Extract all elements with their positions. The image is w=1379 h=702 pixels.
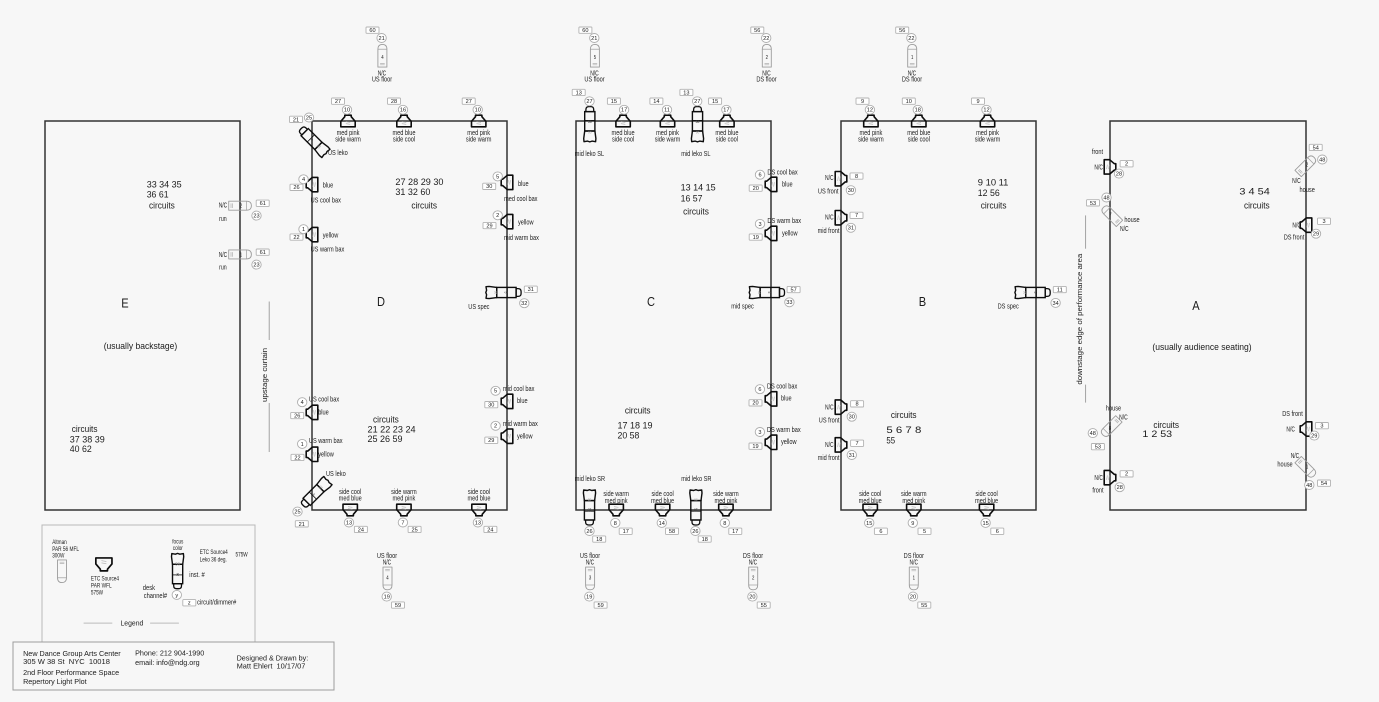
svg-text:6: 6 (758, 173, 761, 179)
svg-text:12 56: 12 56 (978, 187, 1000, 198)
svg-text:31: 31 (848, 226, 854, 232)
svg-text:DS cool bax: DS cool bax (767, 167, 798, 176)
svg-text:21: 21 (293, 117, 299, 123)
svg-text:17: 17 (723, 108, 729, 114)
svg-text:US cool bax: US cool bax (309, 394, 340, 403)
svg-text:14: 14 (653, 99, 659, 105)
svg-text:y: y (175, 593, 178, 599)
svg-text:color: color (173, 546, 183, 552)
svg-text:3: 3 (1320, 424, 1323, 430)
floor tube fixture #1 ch22 cir56 N/C DS floor above B (896, 27, 923, 84)
svg-text:30: 30 (848, 188, 854, 194)
US spec leko fixture ch32 cir31 on D right edge (468, 286, 537, 311)
svg-text:B: B (919, 294, 926, 309)
svg-text:1: 1 (302, 227, 305, 233)
text C circuits upper (681, 182, 716, 217)
svg-text:circuit/dimmer#: circuit/dimmer# (197, 598, 237, 607)
svg-text:2: 2 (1306, 162, 1308, 168)
svg-text:56: 56 (754, 28, 760, 34)
svg-text:DS floor: DS floor (902, 75, 923, 84)
svg-text:med pink: med pink (715, 496, 738, 505)
svg-text:mid spec: mid spec (731, 301, 754, 310)
svg-text:mid front: mid front (818, 453, 840, 462)
svg-text:yellow: yellow (318, 450, 334, 459)
svg-text:circuits: circuits (981, 200, 1007, 211)
svg-text:US cool bax: US cool bax (311, 195, 342, 204)
PAR fixture ch5 cir30 mid cool bax blue D right lower (485, 384, 535, 409)
svg-text:20: 20 (910, 595, 916, 601)
title block phone email text (135, 649, 204, 667)
svg-text:US front: US front (818, 187, 839, 196)
svg-text:7: 7 (401, 520, 404, 526)
svg-text:N/C: N/C (825, 402, 834, 411)
svg-text:channel#: channel# (144, 591, 168, 600)
svg-text:28: 28 (1117, 485, 1123, 491)
svg-text:N/C: N/C (825, 173, 834, 182)
svg-text:27: 27 (586, 99, 592, 105)
house tube fixture #1 ch48 cir54 A right lower angled (1277, 451, 1330, 489)
svg-text:300W: 300W (52, 554, 64, 560)
svg-text:19: 19 (752, 444, 758, 450)
svg-text:575W: 575W (236, 553, 248, 559)
svg-text:20: 20 (753, 186, 759, 192)
svg-text:side warm: side warm (335, 134, 361, 143)
svg-text:18: 18 (694, 508, 698, 513)
svg-text:13: 13 (576, 90, 582, 96)
svg-text:US warm bax: US warm bax (309, 436, 343, 445)
svg-text:27: 27 (466, 99, 472, 105)
svg-text:C: C (647, 294, 655, 309)
svg-text:D: D (377, 294, 385, 309)
svg-text:36: 36 (696, 119, 700, 124)
svg-text:9 10 11: 9 10 11 (978, 176, 1009, 187)
svg-text:ETC Source4: ETC Source4 (200, 550, 229, 556)
PAR fixture ch9 cir5 side warm med pink B bottom 2 (901, 489, 931, 535)
svg-text:med blue: med blue (859, 496, 882, 505)
svg-text:yellow: yellow (517, 431, 533, 440)
svg-text:54: 54 (1321, 481, 1327, 487)
svg-text:29: 29 (1311, 434, 1317, 440)
svg-text:16: 16 (400, 108, 406, 114)
svg-text:26: 26 (293, 185, 299, 191)
svg-text:57: 57 (790, 287, 796, 293)
svg-text:23: 23 (253, 263, 259, 269)
svg-text:34: 34 (1052, 301, 1058, 307)
svg-text:DS cool bax: DS cool bax (767, 381, 798, 390)
svg-text:60: 60 (582, 28, 588, 34)
mid leko SL fixture ch27 cir13 C top 1 (572, 89, 604, 158)
svg-text:(usually backstage): (usually backstage) (104, 341, 178, 351)
legend ETC Source4 PAR symbol (96, 558, 112, 571)
svg-text:2: 2 (494, 424, 497, 430)
svg-text:circuits: circuits (411, 200, 437, 211)
svg-text:z: z (188, 601, 191, 607)
svg-text:55: 55 (886, 434, 895, 445)
svg-text:36: 36 (493, 291, 498, 295)
svg-text:N/C: N/C (1094, 473, 1103, 482)
svg-text:N/C: N/C (1292, 221, 1301, 230)
svg-text:3 4 54: 3 4 54 (1239, 185, 1269, 196)
svg-text:22: 22 (763, 36, 769, 42)
svg-text:18: 18 (587, 508, 591, 513)
svg-text:17: 17 (732, 529, 738, 535)
svg-text:side cool: side cool (716, 134, 739, 143)
svg-text:22: 22 (908, 36, 914, 42)
svg-text:inst. #: inst. # (189, 570, 205, 579)
svg-text:26: 26 (692, 529, 698, 535)
US leko corner fixture ch25 cir21 bottom-left of D (293, 469, 346, 528)
svg-text:2: 2 (1125, 162, 1128, 168)
svg-text:8: 8 (856, 402, 859, 408)
PAR fixture ch30 cir8 N/C US front B left upper (818, 172, 863, 196)
svg-text:E: E (121, 296, 129, 311)
mid leko SL fixture ch27 cir13 C top 4 (680, 89, 711, 158)
svg-text:5: 5 (923, 529, 926, 535)
svg-text:PAR WFL: PAR WFL (91, 584, 112, 590)
svg-text:circuits: circuits (1244, 200, 1270, 211)
svg-text:29: 29 (488, 438, 494, 444)
svg-text:15: 15 (866, 521, 872, 527)
svg-text:side cool: side cool (908, 134, 931, 143)
stage area C rectangle (576, 121, 771, 510)
PAR fixture ch3 cir19 DS warm bax yellow C right upper2 (749, 216, 801, 241)
svg-text:4: 4 (301, 400, 304, 406)
svg-text:med pink: med pink (393, 494, 416, 503)
stage area B rectangle (841, 121, 1036, 510)
PAR fixture ch1 cir22 US warm bax yellow D left lower2 (291, 436, 343, 462)
svg-text:DS floor: DS floor (756, 75, 777, 84)
svg-text:med blue: med blue (339, 494, 362, 503)
PAR fixture ch3 cir19 DS warm bax yellow C right lower2 (749, 425, 801, 450)
svg-text:Legend: Legend (121, 619, 144, 628)
legend title rule right (150, 622, 179, 624)
svg-text:40 62: 40 62 (70, 443, 92, 454)
svg-text:15: 15 (982, 521, 988, 527)
floor tube fixture #4 ch19 cir59 US floor N/C below D (377, 551, 405, 609)
mid leko SR fixture ch26 cir18 C bottom 1 (575, 474, 606, 543)
svg-text:36: 36 (757, 291, 762, 295)
svg-text:N/C: N/C (910, 557, 919, 566)
svg-text:2: 2 (752, 575, 754, 581)
PAR fixture ch4 cir26 blue US cool bax D left upper (290, 175, 341, 205)
svg-text:24: 24 (487, 527, 493, 533)
PAR fixture ch13 cir24 side cool med blue D bottom 1 (339, 487, 368, 533)
svg-text:22: 22 (294, 455, 300, 461)
svg-text:blue: blue (517, 396, 528, 405)
svg-text:6: 6 (879, 529, 882, 535)
svg-text:13: 13 (683, 90, 689, 96)
text E circuits lower (70, 423, 105, 454)
svg-text:29: 29 (486, 224, 492, 230)
svg-text:DS front: DS front (1282, 409, 1303, 418)
svg-text:blue: blue (323, 180, 334, 189)
svg-text:4: 4 (381, 55, 383, 61)
svg-text:blue: blue (781, 394, 792, 403)
PAR fixture ch6 cir20 DS cool bax blue C right upper (749, 167, 798, 192)
svg-text:front: front (1092, 147, 1103, 156)
svg-text:DS spec: DS spec (998, 301, 1020, 310)
svg-text:21: 21 (378, 36, 384, 42)
mid spec leko fixture ch33 cir57 on C right edge (731, 286, 800, 310)
svg-text:28: 28 (391, 99, 397, 105)
PAR fixture ch29 cir3 N/C DS front A right upper (1284, 218, 1331, 242)
svg-text:27: 27 (694, 99, 700, 105)
legend text focus color (172, 539, 183, 552)
svg-text:N/C: N/C (749, 557, 758, 566)
run tube fixture #1 ch23 cir61 on E right edge lower (219, 249, 270, 272)
svg-text:26: 26 (294, 413, 300, 419)
house tube fixture #2 ch48 cir54 A right upper angled (1292, 144, 1327, 194)
svg-text:13: 13 (475, 520, 481, 526)
svg-text:US leko: US leko (326, 469, 346, 478)
svg-text:US floor: US floor (372, 75, 393, 84)
svg-text:575W: 575W (91, 590, 103, 596)
svg-text:32: 32 (521, 301, 527, 307)
svg-text:focus: focus (172, 539, 183, 545)
svg-text:8: 8 (723, 521, 726, 527)
svg-text:house: house (1124, 215, 1139, 224)
text B circuits upper (978, 176, 1009, 210)
PAR fixture ch17 cir15 med blue side cool C top 5 (709, 98, 739, 143)
svg-text:9: 9 (911, 521, 914, 527)
svg-text:36 61: 36 61 (147, 189, 169, 200)
PAR fixture ch10 cir27 med pink side warm D top 3 (462, 98, 491, 143)
svg-text:Matt Ehlert 10/17/07: Matt Ehlert 10/17/07 (237, 661, 306, 670)
PAR fixture ch12 cir9 med pink side warm B top 1 (856, 98, 884, 143)
stage area D rectangle (312, 121, 507, 510)
PAR fixture ch28 cir2 front N/C A left upper (1092, 147, 1133, 178)
svg-text:DS front: DS front (1284, 233, 1305, 242)
svg-text:mid front: mid front (818, 226, 840, 235)
svg-text:18: 18 (915, 108, 921, 114)
svg-text:6: 6 (758, 387, 761, 393)
svg-text:48: 48 (1103, 195, 1109, 201)
PAR fixture ch15 cir6 side cool med blue B bottom 1 (859, 489, 888, 535)
svg-text:9: 9 (861, 99, 864, 105)
svg-text:downstage edge of performance: downstage edge of performance area (1075, 253, 1084, 385)
svg-text:run: run (219, 214, 227, 223)
stage area A rectangle (1110, 121, 1306, 510)
svg-text:side warm: side warm (466, 134, 492, 143)
svg-text:19: 19 (586, 595, 592, 601)
svg-text:mid warm bax: mid warm bax (504, 233, 539, 242)
svg-text:12: 12 (867, 108, 873, 114)
legend text ETC Source4 PAR WFL 575W (91, 577, 120, 597)
svg-text:13: 13 (346, 520, 352, 526)
svg-text:61: 61 (260, 201, 266, 207)
svg-text:48: 48 (1090, 431, 1096, 437)
floor tube fixture #2 ch22 cir56 N/C DS floor above C (751, 27, 777, 84)
svg-text:DS warm bax: DS warm bax (767, 425, 801, 434)
PAR fixture ch14 cir58 side cool med blue C bottom 3 (651, 489, 678, 535)
svg-text:US spec: US spec (468, 302, 490, 311)
PAR fixture ch29 cir3 DS front N/C A right lower (1282, 409, 1328, 440)
stage area E rectangle (45, 121, 240, 510)
svg-text:mid leko SR: mid leko SR (681, 474, 711, 483)
PAR fixture ch8 cir17 side warm med pink C bottom 5 (713, 489, 742, 535)
svg-text:N/C: N/C (219, 201, 228, 210)
svg-text:22: 22 (293, 235, 299, 241)
svg-text:blue: blue (782, 180, 793, 189)
svg-text:30: 30 (849, 415, 855, 421)
svg-text:med cool bax: med cool bax (504, 194, 538, 203)
svg-text:23: 23 (253, 214, 259, 220)
svg-text:36: 36 (694, 497, 698, 502)
svg-text:side cool: side cool (612, 134, 635, 143)
svg-text:Phone: 212 904-1990: Phone: 212 904-1990 (135, 649, 204, 658)
svg-text:19: 19 (384, 595, 390, 601)
floor tube fixture #3 ch19 cir59 US floor N/C below C (580, 551, 607, 609)
svg-text:1: 1 (913, 575, 915, 581)
svg-text:circuits: circuits (149, 200, 175, 211)
PAR fixture ch6 cir20 DS cool bax blue C right lower (749, 381, 798, 406)
svg-text:24: 24 (358, 527, 364, 533)
svg-text:mid leko SL: mid leko SL (575, 149, 604, 158)
PAR fixture ch4 cir26 US cool bax blue D left lower (291, 394, 340, 419)
upstage curtain line lower segment (268, 403, 270, 452)
downstage edge line lower segment (1085, 385, 1087, 403)
svg-text:side warm: side warm (655, 134, 681, 143)
svg-text:Repertory Light Plot: Repertory Light Plot (23, 677, 87, 686)
svg-text:55: 55 (921, 603, 927, 609)
svg-text:19: 19 (753, 235, 759, 241)
svg-text:7: 7 (856, 441, 859, 447)
text B circuits lower (886, 409, 921, 445)
floor tube fixture #4 ch21 cir60 N/C US floor above D (366, 27, 393, 84)
svg-text:36: 36 (1023, 291, 1028, 295)
text D circuits lower (368, 414, 416, 444)
svg-text:med blue: med blue (651, 496, 674, 505)
PAR fixture ch11 cir14 med pink side warm C top 3 (650, 98, 680, 143)
svg-text:side warm: side warm (858, 134, 884, 143)
svg-text:8: 8 (1109, 426, 1111, 432)
svg-text:Altman: Altman (52, 540, 67, 546)
svg-text:US floor: US floor (584, 75, 605, 84)
PAR fixture ch18 cir10 med blue side cool B top 2 (902, 98, 930, 143)
PAR fixture ch10 cir27 med pink side warm D top 1 (332, 98, 361, 143)
svg-text:N/C: N/C (219, 250, 228, 259)
svg-text:front: front (1092, 485, 1103, 494)
svg-text:med pink: med pink (902, 496, 925, 505)
svg-text:2: 2 (766, 55, 768, 61)
svg-text:2: 2 (240, 204, 242, 210)
svg-text:14: 14 (659, 521, 665, 527)
svg-text:email: info@ndg.org: email: info@ndg.org (135, 658, 200, 667)
legend box (42, 525, 255, 642)
svg-text:side warm: side warm (975, 134, 1001, 143)
svg-text:4: 4 (302, 177, 305, 183)
svg-text:53: 53 (1090, 201, 1096, 207)
title block venue address text (23, 649, 121, 686)
PAR fixture ch2 cir29 yellow mid warm bax D right upper2 (483, 211, 539, 242)
svg-text:31: 31 (528, 287, 534, 293)
svg-text:9: 9 (976, 99, 979, 105)
svg-text:20: 20 (752, 401, 758, 407)
svg-text:N/C: N/C (1120, 224, 1129, 233)
svg-text:mid leko SL: mid leko SL (681, 149, 710, 158)
svg-text:15: 15 (712, 99, 718, 105)
text A circuits upper (1239, 185, 1270, 210)
PAR fixture ch13 cir24 side cool med blue D bottom 3 (467, 487, 496, 533)
svg-text:(usually audience seating): (usually audience seating) (1152, 342, 1251, 352)
svg-text:1: 1 (1306, 465, 1308, 471)
svg-text:36: 36 (175, 561, 180, 566)
svg-text:med blue: med blue (467, 494, 490, 503)
svg-text:20 58: 20 58 (618, 430, 640, 441)
svg-text:x: x (176, 572, 179, 578)
svg-text:7: 7 (1109, 212, 1111, 218)
svg-text:33: 33 (786, 300, 792, 306)
svg-text:59: 59 (597, 603, 603, 609)
floor tube fixture #2 ch20 cir55 DS floor N/C below C (743, 551, 770, 609)
svg-text:27: 27 (335, 99, 341, 105)
svg-text:house: house (1300, 185, 1315, 194)
svg-text:25: 25 (294, 510, 300, 516)
svg-text:mid cool bax: mid cool bax (503, 384, 535, 393)
svg-text:36: 36 (588, 497, 592, 502)
legend channel circle y (172, 590, 181, 599)
svg-text:circuits: circuits (891, 409, 917, 420)
svg-text:18: 18 (702, 537, 708, 543)
svg-text:N/C: N/C (825, 212, 834, 221)
svg-text:Leko 36 deg.: Leko 36 deg. (200, 557, 227, 563)
legend circuit box z (183, 600, 196, 606)
svg-text:PAR 56 MFL: PAR 56 MFL (52, 547, 79, 553)
svg-text:5: 5 (496, 174, 499, 180)
PAR fixture ch31 cir7 N/C mid front B left lower2 (818, 438, 864, 462)
svg-text:54: 54 (1313, 145, 1319, 151)
svg-text:3: 3 (1322, 219, 1325, 225)
svg-text:5 6 7 8: 5 6 7 8 (886, 424, 921, 435)
PAR fixture ch17 cir15 med blue side cool C top 2 (607, 98, 634, 143)
legend text desk channel number (143, 583, 168, 600)
svg-text:3: 3 (589, 575, 591, 581)
svg-text:8: 8 (614, 521, 617, 527)
svg-text:N/C: N/C (586, 557, 595, 566)
run tube fixture #2 ch23 cir61 on E right edge upper (219, 200, 270, 223)
svg-text:25: 25 (306, 115, 312, 121)
svg-text:1: 1 (240, 252, 242, 258)
svg-text:mid leko SR: mid leko SR (575, 474, 605, 483)
svg-text:2: 2 (496, 213, 499, 219)
svg-text:17: 17 (623, 529, 629, 535)
svg-text:10: 10 (344, 108, 350, 114)
svg-text:11: 11 (664, 108, 670, 114)
svg-text:16 57: 16 57 (681, 192, 703, 203)
floor tube fixture #5 ch21 cir60 N/C US floor above C (579, 27, 605, 84)
svg-text:15: 15 (611, 99, 617, 105)
svg-text:48: 48 (1306, 483, 1312, 489)
svg-text:house: house (1106, 404, 1121, 413)
svg-text:N/C: N/C (1119, 412, 1128, 421)
svg-text:21: 21 (591, 36, 597, 42)
svg-text:1 2 53: 1 2 53 (1142, 428, 1172, 439)
svg-text:13 14 15: 13 14 15 (681, 182, 716, 193)
svg-text:58: 58 (669, 529, 675, 535)
floor tube fixture #1 ch20 cir55 DS floor N/C below B (904, 551, 931, 609)
upstage curtain line upper segment (268, 302, 270, 341)
svg-text:56: 56 (899, 28, 905, 34)
svg-text:US leko: US leko (328, 148, 348, 157)
svg-text:side cool: side cool (393, 134, 416, 143)
PAR fixture ch2 cir29 mid warm bax yellow D right lower2 (485, 419, 538, 444)
svg-text:yellow: yellow (782, 229, 798, 238)
svg-text:mid warm bax: mid warm bax (503, 419, 538, 428)
svg-text:6: 6 (996, 529, 999, 535)
svg-text:12: 12 (983, 108, 989, 114)
US leko corner fixture ch25 cir21 top-left of D (290, 113, 348, 158)
title block box (13, 642, 334, 690)
